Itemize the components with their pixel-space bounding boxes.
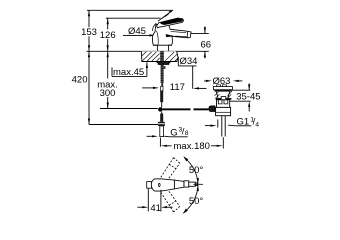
top view lever tip bracket <box>147 182 152 189</box>
hose dark segment upper <box>160 91 163 102</box>
arrow up 126 top <box>107 18 109 24</box>
dimension 35-45 <box>248 84 250 91</box>
body bottom edge <box>153 44 171 46</box>
arc upper arrowhead top <box>183 156 188 161</box>
arc lower arrowhead bottom <box>183 209 188 214</box>
waste deck hatch left <box>214 92 219 99</box>
deck hatch left <box>142 52 160 62</box>
arc lower arrowhead top <box>197 185 199 191</box>
svg-text:Ø34: Ø34 <box>180 56 198 67</box>
diagonal tick on extension <box>162 15 166 18</box>
max180 right tick <box>222 137 224 148</box>
G3/8 left pointer dash <box>147 135 152 137</box>
swivel dashed collar tick lower <box>169 201 176 205</box>
svg-text:4: 4 <box>255 121 259 128</box>
lever top edge thick <box>160 18 183 25</box>
pop-up junction dot <box>158 107 162 111</box>
supply nut white band <box>158 122 165 125</box>
waste washer below deck <box>216 98 232 100</box>
hose dark segment lower <box>160 114 163 122</box>
bottom ref line 420 <box>89 124 159 126</box>
waste tailpiece <box>222 116 225 137</box>
top view tip end cap <box>195 183 197 186</box>
arrow down 153 bottom <box>88 45 90 51</box>
faucet lever <box>157 18 184 28</box>
arc upper arrowhead bottom <box>197 178 199 184</box>
spout inner arrow <box>166 34 176 37</box>
diagonal tick 2 on extension <box>165 14 169 17</box>
waste body lower line <box>216 111 231 113</box>
deck cross-section outline <box>141 51 178 61</box>
svg-text:max.180: max.180 <box>174 141 210 152</box>
dimension 41 <box>137 206 142 208</box>
max45 left bar <box>111 67 113 76</box>
svg-text:126: 126 <box>100 30 116 41</box>
ball rod nut <box>209 106 215 111</box>
arrow up max300 top <box>107 51 109 57</box>
hose thin line 2 <box>161 112 163 114</box>
hose white segment <box>161 86 163 90</box>
waste body lower <box>216 107 231 115</box>
top view collar <box>184 181 189 187</box>
ref line second (lever base level) <box>106 17 161 19</box>
G1 1/4 pointer arrow <box>205 125 211 127</box>
waste deck hatch right <box>227 92 232 99</box>
dimension 153/420 vertical line <box>88 10 90 27</box>
max45 arrow up <box>146 62 148 68</box>
body inner front line <box>157 31 159 45</box>
41 right ext line <box>160 190 162 212</box>
G1 1/4 leader dash <box>228 124 236 127</box>
waste flange <box>213 87 232 90</box>
spout axis tick <box>193 183 203 185</box>
G3/8 leader dash <box>164 135 170 138</box>
spout top face line <box>171 31 187 32</box>
svg-text:300: 300 <box>100 88 116 99</box>
41 left ext line <box>147 189 149 212</box>
threaded rod below nut <box>161 64 164 83</box>
svg-text:66: 66 <box>201 40 212 51</box>
svg-text:50°: 50° <box>189 165 204 176</box>
deck top ref line <box>87 50 209 52</box>
svg-text:Ø63: Ø63 <box>213 76 231 87</box>
swivel dashed line upper A <box>159 158 174 181</box>
swivel dashed line upper B <box>167 163 180 181</box>
max45 underline <box>112 75 147 77</box>
ref line top (lever tip level) <box>87 9 172 11</box>
hose end ref line max300 <box>100 108 158 110</box>
supply nut <box>158 122 165 126</box>
G1 1/4 underline <box>236 125 252 127</box>
rod guide notch <box>164 66 166 69</box>
swivel arc upper <box>184 157 198 184</box>
label D34 <box>177 57 179 66</box>
swivel dashed collar tick upper <box>169 164 176 168</box>
swivel arc lower <box>184 185 198 213</box>
arrow up 420 top <box>88 51 90 57</box>
waste deck top line right <box>232 89 251 91</box>
top view cartridge tick <box>159 183 161 186</box>
swivel dashed tip cap lower <box>174 206 180 212</box>
lever swing arc <box>152 23 156 31</box>
swivel dashed line lower B <box>167 188 180 206</box>
swivel dashed line lower A <box>159 189 174 212</box>
svg-text:117: 117 <box>170 82 185 93</box>
G3/8 left pointer arrow <box>152 135 158 137</box>
dimension 117 <box>142 87 153 89</box>
D34 leader vertical <box>192 66 194 89</box>
top view neck <box>174 180 184 189</box>
faucet shank threaded <box>160 51 164 61</box>
D45 underline <box>123 34 149 36</box>
arrow up 153 top <box>88 10 90 16</box>
max45 leader vertical <box>146 62 148 76</box>
supply tube G3/8 <box>160 126 164 137</box>
waste deck bottom line <box>229 100 250 102</box>
diagonal extension from lever top <box>158 10 173 21</box>
dimension D63 <box>204 80 206 82</box>
arrow down max300 bottom <box>107 103 109 109</box>
top view spout tip <box>189 182 196 186</box>
waste plug knobs <box>217 85 227 87</box>
dimension 126/max300 vertical line <box>107 18 109 29</box>
arrow down 126 bottom <box>107 45 109 51</box>
svg-text:41: 41 <box>150 203 161 214</box>
max180 left arrow <box>161 145 167 147</box>
waste plug shaft <box>221 97 226 101</box>
waste body upper <box>217 100 230 108</box>
spout inner line <box>175 35 187 38</box>
waste neck <box>216 92 229 98</box>
svg-text:153: 153 <box>81 27 97 38</box>
dimension 66 <box>191 32 209 34</box>
dimension max180 left tick <box>159 138 161 147</box>
hose thin line <box>161 102 163 107</box>
G1 1/4 pointer tick <box>217 120 219 128</box>
waste flange lip <box>215 90 232 92</box>
max180 right arrow <box>211 145 217 147</box>
deck hatch right <box>165 52 178 61</box>
swivel dashed tip cap upper <box>174 158 180 164</box>
svg-text:8: 8 <box>185 130 189 137</box>
svg-text:35-45: 35-45 <box>236 92 260 103</box>
waste body nut flats <box>218 100 228 104</box>
D45 leader arrow <box>149 34 155 36</box>
top view body pill <box>151 179 174 191</box>
spout tip cap line <box>186 32 188 38</box>
svg-text:50°: 50° <box>189 196 204 207</box>
svg-text:420: 420 <box>72 75 88 86</box>
faucet body and spout <box>152 24 191 51</box>
locknut <box>157 62 170 65</box>
pop-up rod horizontal <box>162 108 190 110</box>
G3/8 underline <box>170 136 188 138</box>
small arrow at diagonal top <box>169 10 174 13</box>
arrow down 420 bottom <box>88 119 90 125</box>
rod narrow part <box>161 83 163 87</box>
